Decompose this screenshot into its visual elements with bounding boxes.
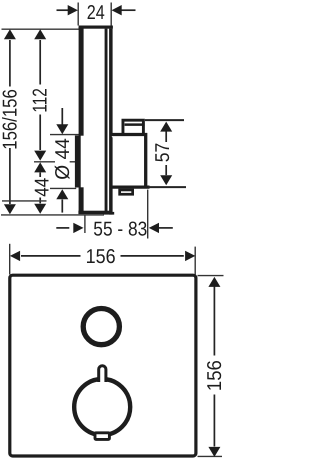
dim Ø44 bottom arrow — [56, 189, 68, 199]
thermostat handle bottom tab — [95, 433, 109, 440]
plate back foot — [103, 212, 114, 215]
dim 24 left arrow — [57, 9, 70, 11]
plate back line B — [109, 29, 113, 215]
dim 156 top right arrow — [121, 255, 184, 257]
body top tab — [123, 120, 143, 135]
front plate square — [10, 275, 196, 456]
dim 156/156 line upper — [4, 29, 16, 39]
front dim 156 right bottom arrow — [213, 395, 215, 447]
dim 57 bottom arrow — [165, 165, 167, 175]
body top tab inner line — [125, 123, 145, 126]
extension line mid-left — [2, 200, 47, 202]
svg-text:156: 156 — [86, 246, 116, 268]
plate top cap — [79, 26, 113, 29]
dim 57 top extension line — [145, 119, 184, 121]
dim 112 line lower — [39, 115, 41, 151]
plate back line A — [105, 29, 108, 213]
thermostat handle circle — [74, 379, 130, 435]
svg-text:24: 24 — [87, 2, 105, 24]
dim 24 right arrow — [121, 9, 136, 11]
dim 156/156 line lower — [9, 148, 11, 204]
thermostat knob bump — [79, 136, 102, 188]
plate bottom cap — [78, 211, 110, 215]
dim 24 right extension line — [110, 3, 112, 26]
extension line bottom-left — [1, 214, 104, 216]
front square dim 156 right extension line — [194, 247, 196, 275]
svg-text:112: 112 — [29, 88, 51, 113]
dim 55-83 right extension line — [147, 190, 149, 239]
select button ring — [83, 309, 119, 345]
front dim 156 right top extension line — [198, 275, 224, 277]
svg-text:57: 57 — [152, 143, 174, 163]
front dim 156 right bottom extension line — [198, 455, 223, 457]
svg-text:55 - 83: 55 - 83 — [93, 218, 147, 240]
dim 55-83 right arrow — [149, 223, 159, 233]
dim 156 top left arrow — [21, 255, 81, 257]
dim 55-83 left extension line — [84, 215, 86, 234]
body bottom tab — [120, 190, 133, 194]
svg-text:Ø 44: Ø 44 — [52, 138, 74, 180]
front square dim 156 left extension line — [9, 244, 11, 275]
thermostat handle stem — [99, 366, 106, 382]
dim 55-83 left arrow — [56, 227, 69, 229]
dim Ø44 top arrow — [61, 108, 63, 125]
valve body — [111, 135, 146, 188]
extension line knob center — [34, 161, 55, 163]
extension line knob bottom — [50, 187, 76, 189]
plate front edge — [79, 27, 84, 213]
dim 112 line upper — [34, 29, 46, 39]
svg-text:44: 44 — [32, 178, 54, 197]
dim 44 upper arrow — [34, 162, 46, 172]
extension line knob top — [50, 134, 79, 136]
svg-text:156: 156 — [204, 360, 224, 391]
valve body bottom line — [111, 186, 150, 189]
top extension line 156/112 — [2, 28, 81, 30]
svg-text:156/156: 156/156 — [0, 89, 21, 150]
dim 57 bottom extension line — [148, 186, 186, 188]
dim 24 left extension line — [77, 3, 79, 26]
dim 44 lower arrow — [39, 198, 41, 204]
dim 57 top arrow — [160, 122, 172, 132]
front dim 156 right top arrow — [208, 277, 220, 287]
